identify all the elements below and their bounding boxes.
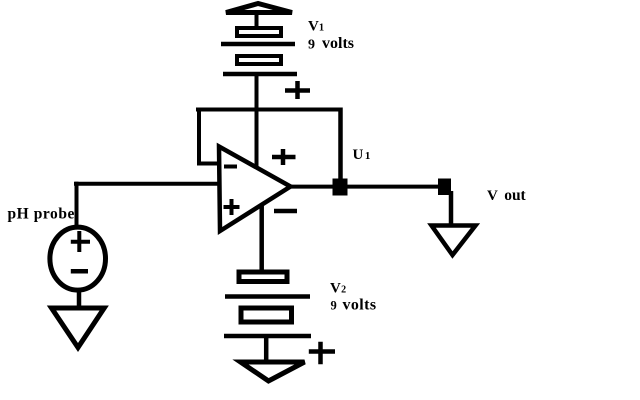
battery V1 plate line 1 — [221, 42, 295, 47]
battery V2 plate line 1 — [225, 294, 310, 299]
svg-text:V2: V2 — [330, 280, 346, 296]
svg-text:U1: U1 — [353, 147, 371, 163]
plus marker in probe — [71, 231, 90, 252]
minus marker negative supply pin — [274, 209, 297, 214]
input wire horizontal from pH probe — [74, 182, 219, 186]
op-amp U1 triangle — [219, 147, 291, 232]
feedback wire jog to inverting input — [197, 162, 219, 166]
svg-text:pH probe: pH probe — [8, 206, 75, 223]
plus sign at V1 battery output — [285, 81, 310, 99]
svg-text:9: 9 — [308, 38, 315, 53]
feedback wire right vertical segment — [338, 108, 343, 187]
battery V1 bottom plate rectangle — [237, 56, 281, 64]
wire output node to ground — [449, 191, 454, 226]
svg-text:V: V — [487, 188, 498, 204]
battery V2 bottom plate rectangle — [241, 308, 292, 322]
plus marker positive supply pin — [272, 149, 296, 165]
plus marker non-inverting input — [224, 199, 240, 215]
battery V2 plate line 2 — [224, 334, 311, 339]
wire battery V1 to op-amp V+ pin — [255, 76, 259, 168]
plus sign at V2 battery bottom — [309, 342, 335, 365]
feedback wire left vertical segment — [197, 108, 201, 164]
wire from arrow to battery V1 — [255, 13, 259, 28]
wire probe to ground — [77, 290, 82, 308]
svg-text:9: 9 — [331, 299, 337, 313]
battery V1 top plate rectangle — [237, 28, 281, 36]
ground symbol bottom — [241, 362, 305, 381]
node junction at feedback — [333, 179, 348, 196]
battery V2 top plate rectangle — [239, 272, 287, 282]
svg-text:volts: volts — [343, 296, 377, 313]
node junction at output — [438, 179, 451, 196]
pH probe source circle — [50, 227, 106, 290]
ground symbol right — [432, 226, 476, 256]
output wire — [289, 185, 450, 189]
minus marker inverting input — [224, 165, 237, 169]
power arrow (V1 positive terminal symbol) — [226, 4, 292, 13]
wire op-amp V- pin to battery V2 — [259, 206, 264, 270]
ground symbol left — [52, 308, 105, 348]
minus marker in probe — [71, 269, 88, 274]
input wire vertical down to probe — [75, 182, 79, 227]
feedback wire top segment — [196, 108, 342, 112]
svg-text:out: out — [504, 187, 526, 204]
svg-text:V1: V1 — [308, 19, 324, 35]
svg-text:volts: volts — [322, 35, 354, 52]
wire battery V2 to ground — [264, 338, 269, 362]
battery V1 plate line 2 — [223, 72, 297, 77]
